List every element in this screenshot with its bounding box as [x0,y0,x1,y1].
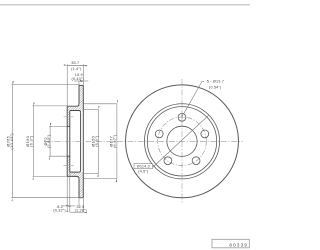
svg-text:80339: 80339 [229,242,248,247]
svg-text:(0.43"): (0.43") [72,77,85,81]
svg-text:(1.4"): (1.4") [71,67,82,71]
svg-text:5 - Ø13.7: 5 - Ø13.7 [207,80,224,84]
svg-text:Ø114.3: Ø114.3 [137,165,150,169]
svg-text:(6.97"): (6.97") [112,134,117,148]
svg-text:35.7: 35.7 [71,61,79,65]
svg-text:(5.9"): (5.9") [94,135,99,147]
svg-text:(0.54"): (0.54") [209,85,222,89]
svg-text:(4.5"): (4.5") [138,169,149,173]
svg-text:(0.32"): (0.32") [53,209,66,213]
svg-text:(1.28"): (1.28") [75,209,88,213]
svg-text:(10.43"): (10.43") [9,133,14,150]
svg-text:(6.3"): (6.3") [28,135,33,147]
svg-text:(2.83"): (2.83") [46,134,51,148]
